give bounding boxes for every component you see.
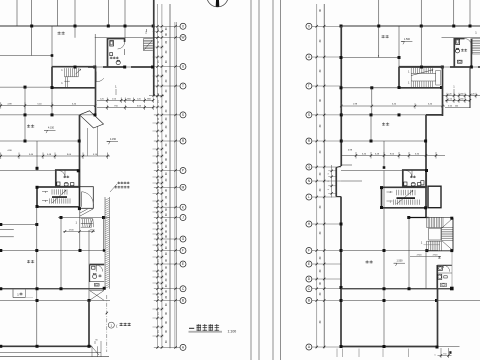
shopfront hatched wall <box>105 197 109 289</box>
svg-text:G: G <box>182 237 185 241</box>
svg-text:30: 30 <box>165 60 168 63</box>
dim 2700 labels <box>63 230 95 233</box>
right plan top verticals <box>379 0 470 58</box>
svg-text:15: 15 <box>158 312 160 315</box>
left plan shopfront wall y67 <box>88 66 154 69</box>
svg-text:15: 15 <box>158 79 160 82</box>
left plan title <box>189 324 237 333</box>
entry door arc bottom <box>96 72 104 82</box>
svg-text:30: 30 <box>319 150 322 153</box>
svg-text:15: 15 <box>158 259 160 262</box>
right shop text lower + level <box>366 260 406 267</box>
svg-text:4.150: 4.150 <box>48 127 55 130</box>
bathroom W1 walls <box>108 38 126 68</box>
left plan top wall <box>0 25 155 28</box>
svg-text:1:100: 1:100 <box>228 329 237 333</box>
svg-text:30: 30 <box>165 69 168 72</box>
right plan bottom verticals <box>337 349 408 358</box>
svg-text:120: 120 <box>137 98 141 100</box>
svg-text:F: F <box>308 249 310 253</box>
svg-text:15: 15 <box>158 165 160 168</box>
cross brace below W3 <box>90 291 104 301</box>
bathroom E3 <box>437 252 452 289</box>
svg-text:15: 15 <box>158 60 160 63</box>
north arrow <box>207 0 228 7</box>
svg-text:3.48: 3.48 <box>47 154 52 156</box>
left dim line y105.6 <box>0 102 96 108</box>
svg-text:1: 1 <box>17 292 19 296</box>
right SE wall x437.5 <box>437 289 439 347</box>
hatch leader annotation <box>110 182 130 193</box>
svg-text:1: 1 <box>453 85 455 89</box>
urinal below W3 <box>94 284 99 287</box>
right shopfront wall y67 <box>399 66 480 69</box>
svg-text:30: 30 <box>165 202 168 205</box>
right dim y151-156 <box>341 149 445 158</box>
svg-text:K: K <box>182 205 185 209</box>
right line y87.8 extension <box>340 86 400 115</box>
right grid y300.5 <box>341 299 480 302</box>
svg-text:1.50: 1.50 <box>112 98 117 100</box>
svg-text:30: 30 <box>165 213 168 216</box>
left plan east wall <box>153 0 155 96</box>
svg-text:900: 900 <box>147 98 151 100</box>
svg-text:30: 30 <box>165 109 168 112</box>
svg-text:1: 1 <box>421 240 423 244</box>
svg-text:30: 30 <box>319 256 322 259</box>
svg-text:1: 1 <box>110 323 112 327</box>
svg-text:240: 240 <box>455 105 459 107</box>
right interior verticals lower <box>384 171 426 347</box>
svg-text:1: 1 <box>475 31 477 35</box>
shop text top <box>58 31 61 33</box>
svg-text:30: 30 <box>319 39 322 42</box>
grid line F y250.5 <box>0 249 105 252</box>
svg-text:15: 15 <box>158 188 160 191</box>
left edge stubs <box>0 230 14 237</box>
right grid y217.5 <box>407 216 429 219</box>
svg-text:30: 30 <box>319 320 322 323</box>
bathroom W2 fixtures <box>57 176 74 187</box>
bathroom W2 walls <box>56 169 80 186</box>
svg-text:5.40: 5.40 <box>37 103 42 105</box>
svg-text:30: 30 <box>319 69 322 72</box>
svg-text:T: T <box>308 84 310 88</box>
svg-text:30: 30 <box>165 79 168 82</box>
svg-text:3.60: 3.60 <box>137 105 142 107</box>
svg-text:S: S <box>308 113 310 117</box>
svg-text:S: S <box>182 113 184 117</box>
svg-text:4.150: 4.150 <box>110 138 117 141</box>
svg-text:900: 900 <box>127 98 131 100</box>
left strip sub ticks <box>153 30 164 337</box>
stair room B walls <box>36 186 80 208</box>
svg-text:30: 30 <box>165 252 168 255</box>
svg-text:X: X <box>182 24 185 28</box>
stair room B treads <box>42 189 70 203</box>
right plan top wall <box>340 25 480 28</box>
svg-text:30: 30 <box>319 124 322 127</box>
stair well edge right <box>436 71 441 86</box>
stair room A treads <box>61 66 80 88</box>
svg-text:30: 30 <box>165 295 168 298</box>
svg-text:A: A <box>308 345 311 349</box>
shop text and level upper <box>27 125 56 134</box>
stair S1 treads <box>144 29 153 51</box>
svg-text:5.40: 5.40 <box>392 104 397 106</box>
svg-text:900: 900 <box>460 98 464 100</box>
svg-text:E: E <box>308 262 310 266</box>
svg-text:Q: Q <box>308 165 311 169</box>
right grid y115 <box>341 113 426 116</box>
right line y37.75 <box>442 37 480 39</box>
svg-text:15: 15 <box>158 272 160 275</box>
right wall x442.5 <box>442 67 444 116</box>
svg-text:30: 30 <box>165 330 168 333</box>
entry lobby <box>78 187 93 210</box>
svg-text:1: 1 <box>408 81 410 85</box>
site boundary lines <box>251 0 281 360</box>
svg-text:2700: 2700 <box>69 230 75 232</box>
left plan line y37.75 <box>95 37 160 39</box>
svg-text:5.40: 5.40 <box>428 104 433 106</box>
left strip dimension numbers <box>158 27 168 343</box>
svg-text:5.10: 5.10 <box>93 154 98 156</box>
right bottom ticks <box>434 348 451 358</box>
svg-text:P: P <box>182 169 184 173</box>
svg-text:30: 30 <box>319 231 322 234</box>
svg-text:30: 30 <box>165 151 168 154</box>
svg-text:30: 30 <box>165 178 168 181</box>
svg-text:30: 30 <box>165 208 168 211</box>
svg-text:15: 15 <box>158 330 160 333</box>
svg-text:9: 9 <box>328 172 330 174</box>
left interior verticals lower <box>37 207 104 348</box>
grid line J y217.5 <box>58 216 110 219</box>
left corner mini dim y95.7 <box>149 93 164 97</box>
svg-text:5.40: 5.40 <box>72 103 77 105</box>
right grid y106 <box>340 103 445 109</box>
svg-text:R: R <box>308 139 311 143</box>
svg-text:15: 15 <box>158 295 160 298</box>
svg-text:15: 15 <box>158 246 160 249</box>
grid line S y115 <box>0 113 97 116</box>
dim line y151-156 <box>0 150 110 159</box>
svg-text:4.98: 4.98 <box>7 103 12 105</box>
canopy step diagonals <box>80 111 104 156</box>
bottom corner details <box>0 340 109 358</box>
svg-text:X: X <box>308 24 311 28</box>
svg-text:R: R <box>182 139 185 143</box>
svg-text:15: 15 <box>158 213 160 216</box>
svg-text:15: 15 <box>158 117 160 120</box>
svg-text:30: 30 <box>165 278 168 281</box>
svg-text:U: U <box>182 65 185 69</box>
stair E1 treads <box>472 31 480 55</box>
svg-text:30: 30 <box>165 218 168 221</box>
svg-text:30: 30 <box>319 292 322 295</box>
svg-text:15: 15 <box>158 40 160 43</box>
bathroom E1 fixtures <box>456 39 468 63</box>
left plan room line y87 <box>0 86 52 115</box>
stair room A walls <box>51 67 96 89</box>
stair room A2 walls <box>398 67 443 89</box>
svg-text:30: 30 <box>165 240 168 243</box>
svg-text:3.40: 3.40 <box>362 153 367 155</box>
svg-text:1: 1 <box>61 82 63 85</box>
bathroom E2 walls <box>403 170 426 187</box>
svg-text:30: 30 <box>319 9 322 12</box>
right plan west wall upper <box>336 26 343 347</box>
svg-text:30: 30 <box>165 50 168 53</box>
left plan top-left rooms <box>17 0 125 56</box>
svg-text:30: 30 <box>165 284 168 287</box>
grid line B y300.5 <box>0 299 110 302</box>
left plan interior verticals upper <box>52 26 95 115</box>
svg-text:1.98: 1.98 <box>353 104 358 106</box>
svg-text:1: 1 <box>390 199 392 203</box>
svg-text:15: 15 <box>158 151 160 154</box>
svg-text:30: 30 <box>165 125 168 128</box>
svg-text:120: 120 <box>100 98 104 100</box>
left plan room line y55 <box>0 54 53 57</box>
svg-text:15: 15 <box>158 100 160 103</box>
svg-text:1: 1 <box>76 221 78 225</box>
bathroom W1 fixtures <box>110 41 120 65</box>
svg-text:1: 1 <box>115 85 117 89</box>
shop text lower <box>27 260 30 262</box>
svg-text:B: B <box>182 299 184 303</box>
svg-text:(: ( <box>116 324 118 328</box>
bathroom W3 <box>90 265 105 283</box>
svg-text:30: 30 <box>165 195 168 198</box>
svg-text:30: 30 <box>165 303 168 306</box>
svg-text:F: F <box>182 249 184 253</box>
svg-text:9: 9 <box>328 188 330 190</box>
svg-text:30: 30 <box>165 134 168 137</box>
svg-text:30: 30 <box>165 158 168 161</box>
svg-text:30: 30 <box>165 272 168 275</box>
left plan dim chains inner <box>97 85 154 111</box>
right shop y57 line <box>340 56 401 60</box>
left plan west verticals mid <box>25 115 37 171</box>
svg-text:90: 90 <box>95 340 98 342</box>
svg-text:30: 30 <box>165 165 168 168</box>
svg-text:30: 30 <box>165 246 168 249</box>
left dim strip lines <box>158 4 177 348</box>
bathroom E2 fixtures <box>404 181 424 187</box>
svg-text:15: 15 <box>158 27 160 30</box>
svg-text:15: 15 <box>158 202 160 205</box>
svg-text:W: W <box>181 36 184 40</box>
svg-text:30: 30 <box>319 172 322 175</box>
svg-text:30: 30 <box>165 40 168 43</box>
stair C small <box>76 219 94 228</box>
right grid bubbles and connectors <box>306 23 341 350</box>
svg-text:30: 30 <box>165 230 168 233</box>
svg-text:2700: 2700 <box>417 255 423 257</box>
svg-text:H: H <box>308 222 311 226</box>
svg-text:3.30: 3.30 <box>415 153 420 155</box>
right grid y250.5 <box>341 249 438 252</box>
right grid y141 <box>341 140 427 143</box>
svg-text:30: 30 <box>319 99 322 102</box>
svg-text:30: 30 <box>165 172 168 175</box>
svg-text:9.00: 9.00 <box>67 154 72 156</box>
svg-text:30: 30 <box>319 269 322 272</box>
svg-text:E: E <box>182 262 184 266</box>
grid line P y170 <box>0 167 56 171</box>
svg-text:1.500: 1.500 <box>397 260 404 263</box>
svg-text:1: 1 <box>434 355 436 357</box>
stair room A2 treads <box>408 66 443 90</box>
svg-text:30: 30 <box>319 282 322 285</box>
right strip dimension numbers <box>319 9 322 324</box>
svg-text:1: 1 <box>408 70 410 74</box>
svg-text:1: 1 <box>378 56 380 58</box>
svg-text:750: 750 <box>114 105 118 107</box>
svg-text:15: 15 <box>158 134 160 137</box>
svg-text:M: M <box>182 186 185 190</box>
svg-text:1: 1 <box>145 31 147 35</box>
svg-text:30: 30 <box>165 235 168 238</box>
svg-text:120: 120 <box>471 94 475 96</box>
svg-text:30: 30 <box>319 188 322 191</box>
svg-text:30: 30 <box>165 312 168 315</box>
grid line R y141 <box>0 140 81 143</box>
svg-text:30: 30 <box>165 100 168 103</box>
balcony shaft <box>428 186 441 208</box>
svg-text:D: D <box>308 277 311 281</box>
left wall x79.5 <box>79 115 81 208</box>
svg-text:4.98: 4.98 <box>348 149 353 151</box>
svg-text:J: J <box>45 190 47 194</box>
left grid bubbles and connectors <box>154 23 186 350</box>
svg-text:N: N <box>308 179 311 183</box>
svg-text:30: 30 <box>165 143 168 146</box>
svg-text:30: 30 <box>165 27 168 30</box>
right grid y170 <box>341 166 403 170</box>
svg-text:30: 30 <box>165 259 168 262</box>
svg-text:1: 1 <box>45 199 47 203</box>
bathroom E1 walls <box>454 38 471 68</box>
svg-text:2700: 2700 <box>433 255 439 257</box>
right bottom wall y346.5 <box>340 345 460 349</box>
svg-text:30: 30 <box>165 224 168 227</box>
svg-text:15: 15 <box>158 284 160 287</box>
svg-text:C: C <box>308 287 311 291</box>
grid line C y288.75 heavy <box>0 287 106 290</box>
label box 1hao <box>13 290 33 298</box>
main stair U <box>421 217 454 252</box>
right wall x470 upper <box>469 67 471 108</box>
left plan west wall x95.5 <box>95 67 97 116</box>
svg-text:30: 30 <box>165 89 168 92</box>
reserved hole note <box>106 295 131 352</box>
svg-text:L: L <box>308 195 310 199</box>
right shop text upper + level <box>382 35 413 44</box>
svg-text:9.00: 9.00 <box>390 153 395 155</box>
svg-text:2700: 2700 <box>90 230 96 232</box>
svg-text:30: 30 <box>165 188 168 191</box>
svg-text:15: 15 <box>158 235 160 238</box>
svg-text:120: 120 <box>448 94 452 96</box>
svg-text:30: 30 <box>165 33 168 36</box>
grid line A y347.5 bottom wall <box>0 345 91 348</box>
right strip lines <box>317 4 325 348</box>
right interior verticals mid <box>371 26 421 166</box>
level marker right mid <box>107 138 119 145</box>
stair room B2 treads <box>387 190 420 205</box>
svg-text:30: 30 <box>165 321 168 324</box>
entry canopy diagonals <box>80 209 93 216</box>
right dim chains inner <box>442 85 480 108</box>
svg-text:30: 30 <box>319 205 322 208</box>
left plan SW wall x89 <box>88 301 90 348</box>
svg-text:1.500: 1.500 <box>404 38 411 41</box>
svg-text:1: 1 <box>61 69 63 72</box>
svg-text:1.50: 1.50 <box>448 98 453 100</box>
svg-text:30: 30 <box>165 117 168 120</box>
right shop text mid <box>382 122 385 124</box>
right dim 2700 <box>410 255 441 257</box>
svg-text:3.48: 3.48 <box>375 153 380 155</box>
svg-text:30: 30 <box>165 266 168 269</box>
right canopy step <box>426 115 443 218</box>
svg-text:4.98: 4.98 <box>7 150 12 152</box>
right grid y288.75 heavy <box>341 287 454 291</box>
svg-text:3.60: 3.60 <box>448 105 453 107</box>
stair room B2 walls <box>380 186 427 209</box>
svg-text:C: C <box>182 287 185 291</box>
svg-text:3.40: 3.40 <box>29 154 34 156</box>
svg-text:B: B <box>308 299 310 303</box>
svg-text:U: U <box>308 55 311 59</box>
svg-text:J: J <box>182 216 184 220</box>
svg-text:T: T <box>182 84 184 88</box>
svg-text:900: 900 <box>460 94 464 96</box>
svg-text:15: 15 <box>158 178 160 181</box>
svg-text:15: 15 <box>158 224 160 227</box>
svg-text:9: 9 <box>328 180 330 182</box>
step dimension ticks right <box>328 165 362 198</box>
svg-text:30: 30 <box>165 289 168 292</box>
grid line H y224.5 <box>0 223 38 226</box>
svg-text:30: 30 <box>165 340 168 343</box>
svg-text:A: A <box>182 346 185 350</box>
